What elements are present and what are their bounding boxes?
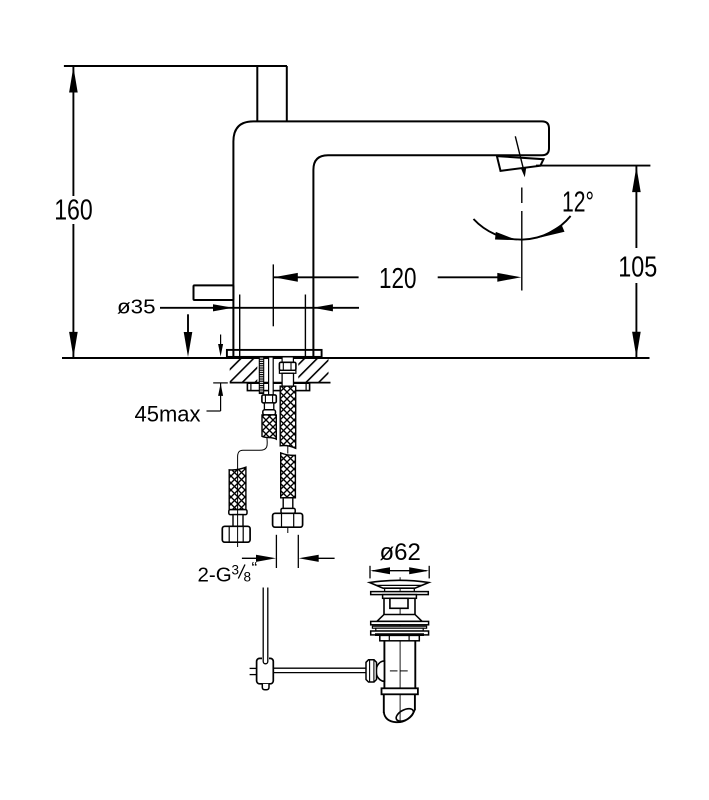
- connector block: [257, 658, 274, 683]
- svg-text:120: 120: [379, 263, 417, 295]
- drain tube: [383, 641, 385, 689]
- dark seal line: [375, 633, 424, 636]
- counter bottom line: [230, 382, 331, 384]
- threaded mounting stud: [259, 357, 263, 394]
- right hose washer: [279, 370, 296, 373]
- vertical spout axis: [521, 188, 523, 204]
- svg-text:105: 105: [618, 252, 657, 284]
- svg-text:45max: 45max: [135, 401, 201, 426]
- handle stem left side: [256, 66, 258, 121]
- left hose braid (displaced lower piece): [229, 467, 246, 509]
- o35 arrow left-pointing: [313, 304, 333, 311]
- horizontal rod to drain: [273, 667, 366, 669]
- 45max tick at counter bottom: [213, 382, 228, 384]
- 105 top reference line: [536, 165, 650, 167]
- left hose nut: [262, 395, 276, 403]
- right hose end collar: [281, 508, 295, 513]
- right hose braid upper: [280, 386, 296, 448]
- o35 extension line left: [239, 295, 241, 357]
- arrow left-pointing: [299, 555, 319, 562]
- svg-text:ø35: ø35: [117, 297, 156, 319]
- spout / body outline: [233, 121, 549, 356]
- 45max lower leader: [220, 383, 222, 411]
- arc arrowhead right: [539, 225, 564, 238]
- hatched counter left block: [230, 359, 258, 382]
- handle stem right side: [286, 66, 288, 121]
- nozzle axis arrowhead: [521, 168, 526, 178]
- svg-text:160: 160: [54, 195, 92, 227]
- mounting washer plate: [247, 383, 309, 390]
- rod entry gap: [262, 655, 269, 663]
- right hose braid lower: [281, 453, 296, 498]
- upper block: [383, 595, 417, 599]
- left hose braid (upper piece): [262, 415, 276, 439]
- faucet centre line: [272, 264, 274, 326]
- hatched counter right block: [298, 359, 328, 382]
- right hose end nut: [273, 513, 303, 527]
- body sides: [383, 598, 385, 614]
- o62 dimension: [370, 566, 429, 579]
- svg-text:8: 8: [244, 570, 252, 585]
- right supply hose: [279, 357, 296, 386]
- 105 arrow down: [632, 332, 641, 358]
- tilted nozzle axis line: [515, 136, 524, 172]
- aerator (tilted mousseur at spout tip): [497, 156, 544, 171]
- o35 extension line right: [304, 295, 306, 357]
- 120 arrow right: [497, 273, 521, 282]
- 45max upper arrow line: [220, 335, 222, 347]
- dim line right: [318, 557, 335, 559]
- o62 arrow right-pointing: [409, 567, 429, 574]
- centre dashes: [390, 670, 398, 672]
- flare: [377, 615, 422, 622]
- dim line left: [242, 557, 257, 559]
- 105 dim line: [635, 167, 637, 249]
- open pipe end: [384, 710, 415, 723]
- left hose ferrule: [263, 410, 276, 415]
- right hose tube: [282, 373, 293, 386]
- right hose centre line: [287, 527, 289, 533]
- drain cap (plug top): [370, 580, 429, 588]
- handle side tab: [194, 285, 234, 300]
- right hose tube top: [282, 357, 293, 362]
- collar: [382, 688, 418, 694]
- band 4: [371, 631, 429, 635]
- 120 arrow left: [274, 273, 298, 282]
- 160 arrow up: [69, 67, 78, 93]
- 45max arrow up: [218, 383, 223, 396]
- left hose end collar: [229, 510, 247, 515]
- cap ring: [371, 592, 429, 595]
- band 3: [376, 628, 423, 631]
- left hose end nut: [222, 526, 250, 542]
- o62 arrow left-pointing: [370, 567, 390, 574]
- inner square window: [390, 598, 408, 608]
- left supply hose tube: [262, 357, 276, 415]
- vertical rod: [262, 588, 264, 662]
- svg-text:12°: 12°: [562, 187, 594, 219]
- angle arc: [474, 216, 571, 240]
- band 1: [371, 621, 429, 624]
- elbow nut: [366, 660, 377, 682]
- left hose neck: [233, 515, 243, 527]
- base flange: [227, 350, 322, 357]
- top extension line (160 dim, over handle top): [64, 65, 287, 67]
- pull-out rod curve (hose centre line): [238, 438, 268, 467]
- 120 dim line segments: [274, 276, 359, 278]
- svg-text:ø62: ø62: [380, 539, 421, 566]
- o35 arrow right-pointing: [213, 304, 233, 311]
- lower tube: [383, 694, 385, 713]
- 45max arrow down: [218, 344, 223, 357]
- arc arrowhead left: [495, 232, 517, 240]
- arrow right-pointing: [256, 555, 276, 562]
- o35 dim line: [160, 307, 359, 309]
- band 2: [372, 626, 426, 628]
- extension lines: [275, 535, 277, 568]
- left hose lower tube: [264, 403, 273, 410]
- cap inner rim: [376, 584, 422, 586]
- right hose top nut: [279, 362, 296, 370]
- hex section: [380, 635, 420, 640]
- svg-text:2-G: 2-G: [198, 564, 232, 587]
- 160 dim line: [72, 67, 74, 196]
- left hose centre line: [237, 467, 239, 547]
- svg-text:“: “: [252, 559, 258, 578]
- elbow dome: [376, 661, 384, 681]
- block bottom tab: [262, 684, 269, 690]
- 160 arrow down: [69, 332, 78, 358]
- 105 arrow up: [632, 167, 641, 193]
- right hose centre line at break: [287, 447, 289, 454]
- svg-text:3: 3: [232, 563, 240, 578]
- left stubs: [250, 667, 257, 669]
- right hose neck: [283, 498, 293, 514]
- drain centre line: [399, 577, 401, 722]
